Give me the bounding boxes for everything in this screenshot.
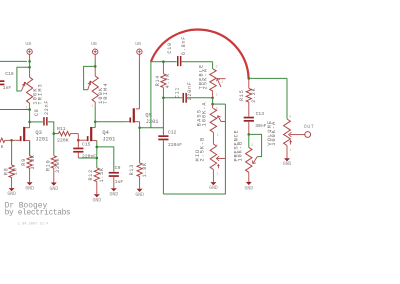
wire arc node to volume riser xyxy=(249,77,287,79)
value 1.8K (R13) xyxy=(142,162,148,177)
value 220K (R11) xyxy=(57,138,69,144)
pin 1 label BASS xyxy=(217,133,219,137)
label C8 xyxy=(34,108,40,116)
resistor R13 1.8K xyxy=(137,128,142,177)
label C16 xyxy=(5,71,14,77)
svg-text:UB: UB xyxy=(25,41,31,47)
capacitor C10 plates xyxy=(177,56,181,66)
svg-text:3: 3 xyxy=(216,107,218,111)
pin 2 label TREBLE xyxy=(221,80,223,84)
VOLUME wiper arrow xyxy=(289,132,305,144)
wire Q4 drain stub xyxy=(92,122,95,128)
wire C9 to ground xyxy=(113,177,115,188)
junction drain node Q3 / left wire xyxy=(28,108,31,111)
wire Q4 drain node to Q5 gate xyxy=(95,121,126,123)
junction C9 tap xyxy=(96,146,99,149)
pin 3 label PRESENCE xyxy=(251,143,253,147)
svg-text:J201: J201 xyxy=(146,119,159,125)
svg-text:1: 1 xyxy=(91,104,93,108)
label Q5 xyxy=(145,112,151,118)
capacitor C15 xyxy=(73,140,83,158)
value 10K-B (PRESENCE) xyxy=(237,141,243,162)
potentiometer VOLUME 100K-A xyxy=(284,119,291,146)
svg-text:25K-A: 25K-A xyxy=(203,68,209,90)
wire Q5 source stub xyxy=(135,122,140,128)
label C11 xyxy=(174,87,180,98)
label 100K (TRIM3) xyxy=(32,87,38,104)
wire Q3 drain stub xyxy=(25,122,29,128)
value 220nF (C15) xyxy=(82,154,96,160)
title Dr Boogey xyxy=(5,202,48,211)
svg-text:GND: GND xyxy=(209,185,218,191)
pin 3 label MID xyxy=(216,144,218,148)
wire gate node to Q3 gate xyxy=(12,139,16,141)
label R14 xyxy=(155,75,161,86)
svg-text:GND: GND xyxy=(110,192,119,198)
svg-text:3: 3 xyxy=(216,144,218,148)
label R10 xyxy=(45,160,51,171)
svg-text:C8: C8 xyxy=(34,108,40,116)
MID wiper arrow xyxy=(216,156,225,168)
wire feedback riser xyxy=(150,62,152,128)
svg-text:C15: C15 xyxy=(82,141,91,147)
trimmer R TRIM4 100K body xyxy=(92,66,98,102)
svg-text:UB: UB xyxy=(91,41,97,47)
svg-text:K: K xyxy=(1,144,4,150)
label UB (UB1) xyxy=(25,41,31,47)
resistor R10 330K xyxy=(51,156,56,168)
wire R9 to ground xyxy=(29,168,31,182)
capacitor C16 plates (cut off at left edge) xyxy=(0,80,4,85)
BASS wiper arrow xyxy=(217,116,226,122)
trimmer TRIM4 wiper arrow xyxy=(88,81,92,90)
label UB (UB3) xyxy=(135,41,141,47)
wire Q5 drain stub xyxy=(136,108,140,110)
wire TRIM4 wiper loop xyxy=(84,66,96,89)
trimmer R TRIM3 100K body xyxy=(27,67,33,103)
trimmer TRIM3 wiper arrow xyxy=(21,82,26,91)
resistor R11 220K xyxy=(54,131,79,140)
svg-text:J201: J201 xyxy=(35,137,48,143)
svg-text:Q3: Q3 xyxy=(35,130,41,136)
svg-text:2.5K-B: 2.5K-B xyxy=(200,137,206,162)
svg-text:C16: C16 xyxy=(5,71,14,77)
wire C8 to R11 node xyxy=(48,122,54,134)
value 4.7K (R14) xyxy=(165,73,171,88)
junction R14 top xyxy=(162,60,165,63)
value 1uF (C9) xyxy=(115,179,124,185)
value 220nF (C11) xyxy=(187,81,193,100)
pin 1 label TREBLE xyxy=(216,93,218,97)
svg-text:30nF: 30nF xyxy=(255,123,266,129)
value 220nF (C12) xyxy=(168,142,182,148)
svg-text:GND: GND xyxy=(283,161,292,167)
wire R14 bottom to C11 xyxy=(163,97,182,99)
svg-text:1.8K: 1.8K xyxy=(142,162,148,177)
value 1nF (C16) xyxy=(3,85,12,91)
svg-text:Q4: Q4 xyxy=(102,130,108,136)
wire UB3 to Q5 drain xyxy=(138,54,140,109)
svg-text:R9: R9 xyxy=(21,158,27,166)
svg-text:6.8nF: 6.8nF xyxy=(181,36,187,55)
pin 1 label VOLUME xyxy=(290,148,292,152)
svg-text:100K-A: 100K-A xyxy=(201,102,207,127)
junction trimmer TRIM3 wiper loop xyxy=(28,66,31,69)
svg-text:C12: C12 xyxy=(168,130,177,136)
svg-text:1: 1 xyxy=(290,148,292,152)
label Q3 xyxy=(35,130,41,136)
svg-text:3: 3 xyxy=(289,114,291,118)
svg-text:22nF: 22nF xyxy=(44,100,50,115)
wire C11 to TREBLE bottom xyxy=(187,97,213,99)
supply UB2 symbol xyxy=(93,49,98,54)
label C9 xyxy=(115,165,121,171)
svg-text:1: 1 xyxy=(216,93,218,97)
date text xyxy=(18,222,48,226)
svg-text:4.7K: 4.7K xyxy=(165,73,171,88)
svg-text:C13: C13 xyxy=(256,111,265,117)
capacitor C11 plates xyxy=(183,93,187,103)
resistor (220K, cut at left edge) into Q3 gate xyxy=(0,138,12,142)
wire net to UB1 rail from left edge xyxy=(0,60,27,62)
OUT pin circle xyxy=(305,132,311,138)
ground under R13 xyxy=(135,189,144,198)
junction TRIM4 wiper loop xyxy=(94,65,97,68)
title by electrictabs xyxy=(5,209,71,218)
wire tone input rail xyxy=(151,61,164,63)
label C13 xyxy=(256,111,265,117)
pin 3 label VOLUME xyxy=(289,114,291,118)
junction Q4 gate node xyxy=(77,139,80,142)
value 30nF (C13) xyxy=(255,123,266,129)
wire VOLUME to ground xyxy=(286,146,288,159)
label C12 xyxy=(168,130,177,136)
label R11 xyxy=(57,126,66,132)
label UB (UB2) xyxy=(91,41,97,47)
svg-text:1: 1 xyxy=(217,133,219,137)
svg-text:GND: GND xyxy=(135,192,144,198)
wire volume riser xyxy=(286,78,288,119)
capacitor C12 xyxy=(158,98,168,194)
svg-text:UB: UB xyxy=(135,41,141,47)
wire BASS top to wiper bus xyxy=(213,103,226,105)
label VOLUME xyxy=(267,120,273,146)
ground under R9 xyxy=(25,182,34,191)
svg-text:3.3K: 3.3K xyxy=(30,154,36,169)
svg-text:100K-A: 100K-A xyxy=(271,121,277,146)
wire R13 to ground xyxy=(139,177,141,189)
svg-text:R14: R14 xyxy=(155,75,161,86)
svg-text:220nF: 220nF xyxy=(168,142,182,148)
supply UB3 symbol xyxy=(137,49,142,54)
label R8 xyxy=(4,167,10,175)
resistor R15 2.2K xyxy=(246,78,251,102)
label OUT xyxy=(304,124,315,130)
wire drain node to C8 xyxy=(30,121,43,123)
supply UB1 symbol xyxy=(27,49,32,54)
ground under C9 xyxy=(110,188,119,197)
svg-text:C11: C11 xyxy=(174,87,180,98)
junction Q3 gate node / R8 xyxy=(10,139,13,142)
junction BASS top node xyxy=(211,103,214,106)
ground under R12 xyxy=(93,194,102,203)
potentiometer TREBLE 25K-A xyxy=(210,69,216,98)
feedback arc wire xyxy=(151,30,249,79)
wire to C10 xyxy=(163,61,176,63)
svg-text:3: 3 xyxy=(251,143,253,147)
wire Q4 gate wire xyxy=(78,139,87,141)
junction C15/source xyxy=(96,157,99,160)
svg-text:2.2K: 2.2K xyxy=(251,88,257,103)
wire PRESENCE wiper loop xyxy=(249,134,262,156)
wire Q4 source stub xyxy=(92,141,97,168)
pin 1 label TRIM4 xyxy=(91,104,93,108)
wire BASS bottom to MID top xyxy=(212,132,214,144)
wire Q5 source to tone node xyxy=(140,127,164,129)
capacitor C13 xyxy=(244,102,254,134)
value K label (cut resistor) xyxy=(1,144,4,150)
wire R11 node down to R10 xyxy=(53,134,55,156)
ground under VOLUME xyxy=(283,158,292,167)
junction arc right end xyxy=(248,77,251,80)
junction C13 / PRESENCE node xyxy=(248,133,251,136)
label J201 (Q3) xyxy=(35,137,48,143)
svg-text:220K: 220K xyxy=(57,138,69,144)
svg-text:GND: GND xyxy=(7,191,16,197)
svg-text:R12: R12 xyxy=(88,169,94,180)
potentiometer MID 2.5K-B xyxy=(210,144,216,170)
resistor R14 4.7K xyxy=(161,62,166,98)
potentiometer PRESENCE 10K-B xyxy=(246,134,252,172)
svg-text:1nF: 1nF xyxy=(3,85,12,91)
value 25K-A (TREBLE) xyxy=(203,68,209,90)
potentiometer BASS 100K-A xyxy=(210,104,216,132)
pin 3 label BASS xyxy=(216,107,218,111)
svg-text:1: 1 xyxy=(216,171,218,175)
svg-text:J201: J201 xyxy=(102,137,115,143)
label TRIM4 xyxy=(103,82,109,104)
PRESENCE wiper arrow xyxy=(252,157,257,164)
svg-text:1.04.2007 15:4: 1.04.2007 15:4 xyxy=(18,222,48,226)
svg-text:GND: GND xyxy=(93,198,102,204)
label J201 (Q5) xyxy=(146,119,159,125)
TREBLE wiper arrow xyxy=(217,79,226,87)
svg-text:3: 3 xyxy=(216,65,218,69)
wire UB1 stem xyxy=(29,54,31,61)
value 100K-A (BASS) xyxy=(201,102,207,127)
svg-text:R8: R8 xyxy=(4,167,10,175)
transistor Q5 J201 xyxy=(126,108,135,122)
label BASS xyxy=(196,109,202,126)
svg-text:10K-B: 10K-B xyxy=(237,141,243,162)
ground under PRESENCE xyxy=(245,182,254,191)
wire TRIM3 bottom to drain node xyxy=(29,103,31,122)
label R15 xyxy=(239,89,245,100)
junction Q4 drain node xyxy=(94,121,97,124)
transistor Q3 J201 xyxy=(16,127,26,141)
transistor Q4 J201 xyxy=(87,127,92,141)
svg-text:R15: R15 xyxy=(239,89,245,100)
junction Q5 source node xyxy=(138,127,141,130)
value 1M (R8) xyxy=(13,167,19,175)
ground under R10 xyxy=(50,183,59,192)
label MID xyxy=(195,149,201,162)
svg-text:R10: R10 xyxy=(45,160,51,171)
wire TREBLE bottom to BASS top xyxy=(212,98,214,104)
wire UB2 stem xyxy=(94,54,96,66)
svg-text:1M: 1M xyxy=(13,167,19,175)
svg-text:R13: R13 xyxy=(129,164,135,175)
svg-text:220nF: 220nF xyxy=(82,154,96,160)
label R12 xyxy=(88,169,94,180)
pin 1 label MID xyxy=(216,171,218,175)
value 1.5K (R12) xyxy=(99,167,105,182)
value 2.2K (R15) xyxy=(251,88,257,103)
wire R10 to ground xyxy=(53,168,55,182)
label TRIM3 xyxy=(38,83,44,105)
label 100K (TRIM4) xyxy=(98,87,104,104)
junction at UB1 rail xyxy=(28,60,31,63)
wire C10 to TREBLE xyxy=(182,62,213,69)
svg-text:1.5K: 1.5K xyxy=(99,167,105,182)
label TREBLE xyxy=(199,64,205,90)
svg-text:GND: GND xyxy=(25,185,34,191)
svg-text:GND: GND xyxy=(245,185,254,191)
value 22nF (C8) xyxy=(44,100,50,115)
value 6.8nF (C10) xyxy=(181,36,187,55)
svg-text:C10: C10 xyxy=(167,42,173,53)
label J201 (Q4) xyxy=(102,137,115,143)
label Q4 xyxy=(102,130,108,136)
wire TRIM4 bottom to Q4 drain node xyxy=(94,102,96,122)
svg-text:TRIM4: TRIM4 xyxy=(103,82,109,104)
value 330K (R10) xyxy=(55,158,61,173)
wire from left edge to Q3 drain node xyxy=(0,109,29,111)
svg-text:C9: C9 xyxy=(115,165,121,171)
junction drain node Q3 / C8 tap xyxy=(28,121,31,124)
label C10 xyxy=(167,42,173,53)
svg-text:2: 2 xyxy=(221,80,223,84)
svg-text:OUT: OUT xyxy=(304,124,315,130)
pin 3 label TREBLE xyxy=(216,65,218,69)
label R9 xyxy=(21,158,27,166)
svg-text:330K: 330K xyxy=(55,158,61,173)
resistor R12 1.5K xyxy=(94,168,99,182)
label R13 xyxy=(129,164,135,175)
resistor R8 1M xyxy=(9,140,14,177)
resistor R9 3.3K xyxy=(27,141,32,169)
svg-text:R11: R11 xyxy=(57,126,66,132)
wire to C9 xyxy=(97,147,114,172)
wire TRIM3 wiper loop xyxy=(17,67,30,91)
ground under MID xyxy=(209,182,218,191)
capacitor C9 plates xyxy=(109,172,119,177)
wire R8 to ground xyxy=(11,178,13,189)
wire R12 to ground xyxy=(96,182,98,195)
label C15 xyxy=(82,141,91,147)
wire tone stack bottom xyxy=(163,104,225,194)
wire UB1 down to trimmer xyxy=(29,61,31,67)
pin 1 label TRIM3 xyxy=(26,105,28,109)
junction R11/R10 node xyxy=(53,132,56,135)
svg-text:by electrictabs: by electrictabs xyxy=(5,209,71,218)
junction R14 bottom xyxy=(162,97,165,100)
value 3.3K (R9) xyxy=(30,154,36,169)
wire Q3 source stub xyxy=(25,141,29,156)
svg-text:GND: GND xyxy=(50,186,59,192)
value 2.5K-B (MID) xyxy=(200,137,206,162)
label PRESENCE xyxy=(233,129,239,161)
wire MID bottom to ground xyxy=(212,170,214,183)
wire C15 bottom to Q4 source xyxy=(78,157,97,159)
junction TREBLE bottom node xyxy=(211,97,214,100)
svg-text:TRIM3: TRIM3 xyxy=(38,83,44,105)
svg-text:1uF: 1uF xyxy=(115,179,124,185)
svg-text:1: 1 xyxy=(26,105,28,109)
value 100K-A (VOLUME) xyxy=(271,121,277,146)
ground under R8 xyxy=(7,188,16,197)
capacitor C8 plates xyxy=(43,117,47,125)
wire PRESENCE to ground xyxy=(248,172,250,182)
